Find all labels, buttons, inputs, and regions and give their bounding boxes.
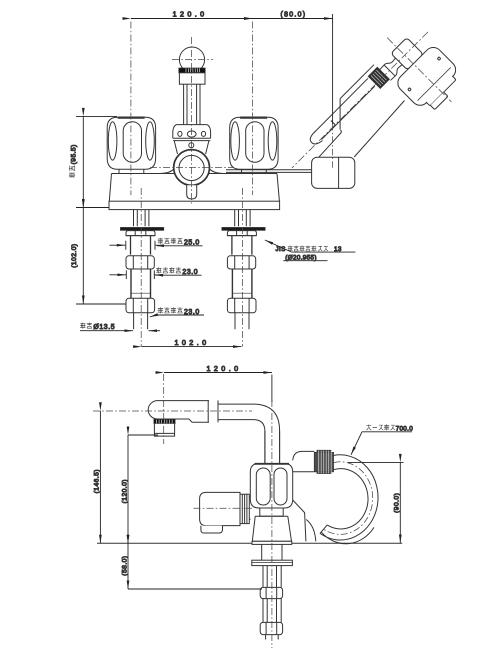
head face line bbox=[418, 67, 451, 100]
label inner dia 13.5 bbox=[80, 322, 115, 331]
side handle lip bbox=[201, 526, 223, 533]
holder base inner line bbox=[338, 157, 340, 188]
grip neck with waist bbox=[380, 56, 405, 81]
dim 102.0 bottom bbox=[142, 346, 242, 348]
svg-text:700.0: 700.0 bbox=[396, 425, 414, 432]
knob (handle side view) bbox=[250, 464, 292, 509]
dim 13.5 arrows bbox=[80, 330, 133, 332]
spout aerator striped band bbox=[154, 419, 175, 424]
extension line handle top bbox=[76, 115, 117, 117]
svg-text:(95.5): (95.5) bbox=[70, 144, 77, 164]
svg-text:23.0: 23.0 bbox=[184, 309, 200, 316]
svg-text:(90.0): (90.0) bbox=[394, 493, 401, 513]
holder trough inner-left edge bbox=[314, 78, 368, 132]
holder post right edge bbox=[339, 99, 341, 130]
center line left handle bbox=[130, 22, 132, 196]
cap collar bbox=[179, 73, 205, 84]
holder arm right edge bbox=[354, 101, 404, 158]
text (120.0) rotated bbox=[121, 479, 128, 503]
label hex 23.0 #2 bbox=[158, 307, 200, 316]
axis center line bbox=[292, 32, 428, 168]
center line spout bbox=[191, 37, 193, 204]
svg-text:120.0: 120.0 bbox=[173, 10, 208, 19]
hose end overlap edge bbox=[321, 527, 374, 543]
extension line holder center bbox=[332, 14, 334, 124]
knob neck bbox=[260, 508, 283, 516]
svg-text:(146.5): (146.5) bbox=[93, 469, 100, 493]
left leg shank 2 bbox=[131, 269, 151, 298]
dim (58.0) bbox=[127, 543, 129, 589]
pivot block bbox=[391, 38, 423, 70]
body sides bbox=[109, 174, 279, 202]
dim (80.0) top bbox=[253, 18, 333, 20]
right leg washer bbox=[222, 227, 265, 230]
riser pipe into knob bbox=[265, 431, 280, 464]
head screw dots bbox=[437, 57, 441, 61]
swing spout tube + elbow bbox=[218, 404, 280, 463]
right leg pipe stub bbox=[235, 313, 249, 329]
fillet arcs into valve circle bbox=[160, 169, 224, 174]
spout flare joint bbox=[173, 125, 211, 141]
svg-text:(80.0): (80.0) bbox=[281, 12, 307, 19]
washer (side) bbox=[252, 560, 293, 565]
dim (146.5) bbox=[99, 411, 101, 543]
svg-text:(120.0): (120.0) bbox=[121, 479, 128, 503]
hose nut (ribbed) bbox=[314, 450, 333, 473]
grip ribbed band bbox=[368, 67, 389, 88]
spout head center line vertical bbox=[163, 374, 165, 444]
left leg hex nut B (23.0) bbox=[126, 256, 154, 269]
center line left leg bbox=[140, 188, 142, 347]
text max(95.5) rotated bbox=[69, 144, 78, 178]
left leg hex nut C (23.0) bbox=[126, 298, 155, 313]
spout collar ring bbox=[208, 400, 218, 422]
hex nut 1 (side) bbox=[260, 587, 282, 598]
dim 120.0 top bbox=[131, 18, 253, 20]
extension line leg bottom bbox=[76, 303, 126, 305]
leader nut C bbox=[150, 315, 156, 317]
svg-text:25.0: 25.0 bbox=[184, 240, 200, 247]
dim 120.0 bottom drawing bbox=[164, 372, 272, 374]
body cone bbox=[252, 516, 291, 541]
spout column bbox=[184, 84, 200, 124]
right leg shank 2 bbox=[232, 269, 252, 298]
pipe stub end bbox=[266, 635, 279, 640]
body top edge bbox=[112, 173, 278, 175]
JIS leader bbox=[265, 240, 292, 252]
text (146.5) rotated bbox=[93, 469, 100, 493]
deck line bbox=[97, 542, 402, 544]
hose outlet pipe from body bbox=[293, 451, 315, 471]
dim (102.0) vertical bbox=[82, 208, 84, 305]
holder support leg edge bbox=[319, 130, 342, 157]
right leg hex nut C bbox=[227, 298, 256, 313]
label hose length 700.0 bbox=[366, 424, 413, 432]
right leg: neck pipe bbox=[235, 210, 250, 227]
left handle bbox=[107, 117, 155, 169]
spout aerator cup bbox=[154, 424, 174, 436]
svg-text:120.0: 120.0 bbox=[207, 364, 242, 373]
ticks nut 23.0 bbox=[126, 270, 154, 279]
cap striped band bbox=[179, 68, 205, 73]
holder base bbox=[312, 157, 355, 188]
body rear profile bbox=[293, 500, 316, 541]
text (102.0) rotated bbox=[71, 243, 78, 267]
svg-text:Ø13.5: Ø13.5 bbox=[93, 324, 115, 331]
shower hose inner arc bbox=[327, 469, 368, 529]
trough end cap bbox=[310, 132, 322, 144]
spout head bbox=[148, 401, 209, 423]
base plate bbox=[252, 541, 292, 544]
label hex 23.0 #1 bbox=[156, 267, 198, 276]
trough outer-left edge bbox=[340, 65, 374, 99]
hose label leader bbox=[362, 431, 412, 433]
pipe 2 bbox=[263, 599, 281, 623]
ticks nut 25.0 bbox=[126, 241, 155, 250]
svg-text:(102.0): (102.0) bbox=[71, 243, 78, 267]
spout cap ball bbox=[179, 47, 204, 72]
lower stub bbox=[187, 185, 197, 199]
shower head main bbox=[394, 44, 459, 109]
dim (120.0) lower bbox=[127, 435, 129, 543]
side handle cylinder bbox=[200, 492, 251, 525]
hex nut 2 (side) bbox=[260, 622, 282, 634]
right leg hex nut B bbox=[227, 256, 255, 269]
svg-text:13: 13 bbox=[334, 246, 342, 253]
right handle neck bbox=[242, 169, 267, 173]
shower grip right edge bbox=[322, 86, 375, 139]
dim (90.0) bbox=[399, 462, 401, 543]
svg-text:(58.0): (58.0) bbox=[121, 556, 128, 576]
riser center line bbox=[271, 400, 273, 648]
center line right handle bbox=[252, 22, 254, 196]
arrows nut 25.0 bbox=[110, 244, 126, 246]
shower hose outer arc bbox=[320, 455, 378, 540]
center line right leg bbox=[241, 188, 243, 347]
hex label 1 underline bbox=[157, 245, 203, 247]
text (90.0) rotated bbox=[394, 493, 401, 513]
extension line plate top bbox=[76, 207, 109, 209]
lower taper to valve circle bbox=[174, 141, 209, 154]
left leg nut A top chamfer lobes (25.0) bbox=[126, 231, 155, 236]
left leg: neck pipe bbox=[134, 210, 149, 227]
hose end cap bbox=[320, 525, 327, 534]
valve circle outer bbox=[174, 150, 210, 186]
grip end cap inside trough bbox=[331, 121, 335, 125]
left leg nut A body bbox=[131, 236, 151, 255]
center line valve circle horizontal bbox=[150, 167, 234, 169]
svg-text:(Ø20.955): (Ø20.955) bbox=[285, 255, 317, 262]
right leg nut A top chamfer lobes bbox=[227, 231, 256, 236]
mounting bar to holder bbox=[226, 170, 312, 173]
ball horizontal center line bbox=[172, 59, 213, 61]
pipe below washer bbox=[263, 566, 281, 588]
text (58.0) rotated bbox=[121, 556, 128, 576]
head cross center line bbox=[387, 38, 451, 102]
flare bolt ovals bbox=[178, 131, 182, 136]
hose center arc bbox=[324, 462, 373, 535]
svg-text:23.0: 23.0 bbox=[182, 269, 198, 276]
head face step bbox=[426, 76, 456, 106]
small screw circle bbox=[189, 143, 194, 148]
left handle neck bbox=[119, 169, 144, 173]
below-deck shank bbox=[262, 544, 282, 560]
right leg nut A body bbox=[232, 236, 252, 255]
left leg pipe stub bbox=[134, 313, 148, 329]
base plate bbox=[109, 201, 280, 209]
spout center line horizontal bbox=[93, 410, 252, 412]
dim max(95.5) vertical bbox=[82, 116, 84, 207]
label JIS thread bbox=[276, 246, 342, 254]
head face tab bbox=[430, 92, 448, 110]
arrows nut 23.0 bbox=[110, 274, 127, 276]
left leg washer bbox=[120, 227, 163, 230]
label hex 25.0 bbox=[158, 238, 200, 247]
valve circle inner bbox=[179, 155, 204, 180]
hex label 3 underline bbox=[156, 314, 204, 316]
svg-text:JIS: JIS bbox=[276, 246, 286, 253]
hex label 2 underline bbox=[155, 274, 201, 276]
right handle bbox=[230, 117, 278, 169]
side handle center line bbox=[194, 507, 253, 509]
svg-text:102.0: 102.0 bbox=[175, 338, 210, 347]
